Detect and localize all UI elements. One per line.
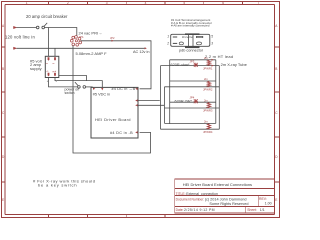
svg-text:B: B: [2, 67, 4, 71]
frame inner border: [5, 5, 275, 215]
svg-text:5.08mm-2 AMP F: 5.08mm-2 AMP F: [76, 51, 108, 56]
svg-text:JPWR1: JPWR1: [203, 66, 213, 70]
pdb connector body: [171, 34, 210, 46]
wire ladder rail r4 top: [165, 122, 216, 124]
pdb connector slot bottom left: [173, 42, 177, 44]
svg-text:1: 1: [26, 1, 28, 5]
svg-text:JP4: JP4: [190, 96, 195, 100]
title block outline: [175, 179, 275, 213]
wire ladder bus VR1: [215, 60, 217, 124]
wire supply plus5 to switch: [49, 78, 78, 87]
title block rev divider: [257, 196, 259, 207]
label pin mark plus: [47, 80, 49, 81]
svg-text:5: 5: [183, 1, 185, 5]
wire breaker to JP1 drop: [45, 28, 77, 37]
resistor R1: [207, 60, 210, 66]
svg-text:620R 2W*: 620R 2W*: [175, 100, 193, 104]
svg-text:D=center: D=center: [182, 35, 194, 39]
pin board 5v left: [93, 88, 95, 90]
svg-text:HEI Driver Board: HEI Driver Board: [95, 117, 131, 122]
svg-text:pdb connector: pdb connector: [179, 48, 204, 52]
net arrow 120V hot line in: [14, 26, 17, 28]
pin board B+: [135, 88, 137, 90]
pin HT lead arrow rail2: [212, 65, 214, 67]
svg-text:B: B: [275, 67, 277, 71]
wire ladder bus VL3: [169, 60, 171, 124]
svg-text:4: 4: [145, 1, 147, 5]
svg-text:2m: 2m: [204, 120, 209, 124]
svg-text:3: 3: [211, 42, 213, 46]
switch S2 power on: [75, 82, 86, 88]
pin board out2: [135, 104, 137, 106]
wire board out1 to ladder: [138, 100, 160, 102]
power supply PS1 box: [45, 56, 59, 77]
wire ladder rail r1 top: [170, 59, 216, 61]
svg-text:Some Rights Reserved: Some Rights Reserved: [209, 202, 248, 206]
pdb connector oval bottom right: [196, 42, 201, 45]
svg-text:TITLE:: TITLE:: [176, 192, 186, 196]
wire supply gnd around to board top: [55, 78, 102, 88]
svg-text:3: 3: [106, 1, 108, 5]
svg-text:be a key switch: be a key switch: [38, 183, 77, 188]
pin board out1: [135, 99, 137, 101]
frame outer border: [2, 2, 280, 218]
pdb connector bottom bar: [185, 46, 200, 48]
svg-text:2: 2: [67, 1, 69, 5]
title block sheet divider: [245, 206, 247, 213]
wire switch to board: [86, 86, 93, 88]
title block row line 3: [175, 205, 275, 207]
wire junction hot to supply: [48, 28, 50, 57]
svg-text:JPWR2: JPWR2: [203, 88, 213, 92]
pin board -B: [135, 131, 137, 133]
svg-text:2m: 2m: [204, 56, 209, 60]
wire JP1 to B+ riser: [81, 41, 151, 89]
pin PS1 ac1: [48, 57, 50, 61]
pdb connector slot top right: [196, 36, 202, 37]
wire ladder bus VL2: [164, 87, 166, 124]
label pin mark minus: [56, 80, 58, 81]
wire ladder bus VL1: [160, 66, 162, 130]
svg-text:Date:: Date:: [176, 208, 184, 212]
HEI driver board box: [91, 87, 138, 138]
frame row ticks right: [275, 47, 280, 182]
svg-text:7: 7: [258, 1, 260, 5]
svg-text:1: 1: [167, 34, 169, 38]
svg-text:2m: 2m: [204, 77, 209, 81]
wire ladder rail r4 bottom: [161, 128, 220, 130]
spark gap JP4 row3: [194, 99, 198, 103]
wire ladder rail r2 top: [170, 80, 216, 82]
frame column ticks bottom: [49, 215, 165, 218]
svg-text:E: E: [2, 198, 4, 202]
pin PS1 gnd: [54, 73, 56, 77]
pdb connector slot top left: [173, 36, 177, 38]
svg-text:JP2: JP2: [110, 36, 115, 40]
circuit breaker S1: [36, 23, 47, 29]
svg-text:Document Number:: Document Number:: [176, 198, 205, 202]
svg-text:HEI Driver Board External Conn: HEI Driver Board External Connections: [183, 182, 252, 187]
pdb connector wires through: [189, 34, 194, 47]
pin PS1 plus5: [48, 73, 50, 77]
svg-text:#5 VDC in: #5 VDC in: [93, 92, 110, 96]
svg-text:2: 2: [166, 42, 169, 46]
svg-text:AC 12v in: AC 12v in: [133, 50, 149, 54]
svg-text:JP1: JP1: [79, 35, 85, 39]
wire supply aux stub: [59, 76, 87, 81]
pdb connector top bar: [185, 33, 200, 35]
svg-text:620R ohm*: 620R ohm*: [171, 63, 191, 67]
pin PS1 ac2: [54, 57, 56, 61]
wire ladder rail r3 bottom: [165, 107, 220, 109]
svg-text:#4 DC in -B: #4 DC in -B: [110, 131, 133, 135]
pdb connector oval bottom left: [179, 42, 183, 45]
frame column numbers top: [26, 1, 260, 5]
svg-text:# All are internally connected: # All are internally connected: [171, 24, 210, 28]
svg-text:#4 DC in →B+: #4 DC in →B+: [112, 87, 139, 91]
frame row ticks left: [2, 47, 6, 182]
svg-text:120 volt line in: 120 volt line in: [5, 35, 35, 40]
connector JP1 plug ring: [70, 36, 81, 47]
pin JP2 midwire: [112, 40, 114, 42]
svg-text:JPWR3: JPWR3: [203, 109, 213, 113]
pin HT lead arrow rail1: [212, 59, 214, 61]
wire ladder rail r1 bottom: [161, 65, 220, 67]
wire hot line to breaker: [17, 27, 37, 29]
svg-text:1/1: 1/1: [260, 208, 265, 212]
frame row letters right: [275, 24, 278, 202]
wire ladder bus VR2: [218, 66, 220, 130]
net arrow neutral line in: [14, 47, 17, 49]
frame column ticks top: [49, 2, 243, 5]
pin AC 12v in end: [145, 47, 147, 49]
wire neutral to supply drop: [54, 48, 56, 56]
svg-text:2m X-ray Tube: 2m X-ray Tube: [221, 62, 248, 67]
svg-text:2/25/14 9:12 PM: 2/25/14 9:12 PM: [184, 208, 215, 212]
pin board 5v top: [101, 88, 103, 90]
svg-text:switch: switch: [65, 91, 75, 95]
title block row line 1: [175, 187, 275, 189]
svg-text:JPWR4: JPWR4: [203, 130, 213, 134]
svg-text:6: 6: [222, 1, 224, 5]
wire ladder rail r2 bottom: [165, 86, 220, 88]
frame row letters left: [2, 24, 5, 202]
spark gap JP3 row1: [194, 63, 198, 67]
svg-text:E: E: [275, 198, 277, 202]
wire neutral line: [17, 47, 145, 49]
svg-text:1.00: 1.00: [265, 201, 272, 205]
svg-text:REV:: REV:: [259, 197, 267, 201]
wire board out2 to ladder: [138, 104, 164, 106]
svg-text:Sheet:: Sheet:: [247, 208, 257, 212]
svg-text:2m: 2m: [204, 98, 209, 102]
svg-text:2.2 m HT lead: 2.2 m HT lead: [205, 54, 233, 59]
resistor R2: [207, 81, 210, 87]
wire return drop long: [73, 45, 151, 153]
resistor R4: [207, 123, 210, 129]
wire ladder rail r3 top: [170, 101, 216, 103]
svg-text:20 amp circuit breaker: 20 amp circuit breaker: [26, 14, 68, 19]
svg-text:supply: supply: [30, 66, 42, 71]
svg-text:5: 5: [211, 34, 213, 38]
resistor R3: [207, 102, 210, 108]
title block row line 2: [175, 195, 275, 197]
svg-text:External_connection: External_connection: [186, 192, 218, 196]
svg-text:JP3: JP3: [190, 59, 195, 63]
